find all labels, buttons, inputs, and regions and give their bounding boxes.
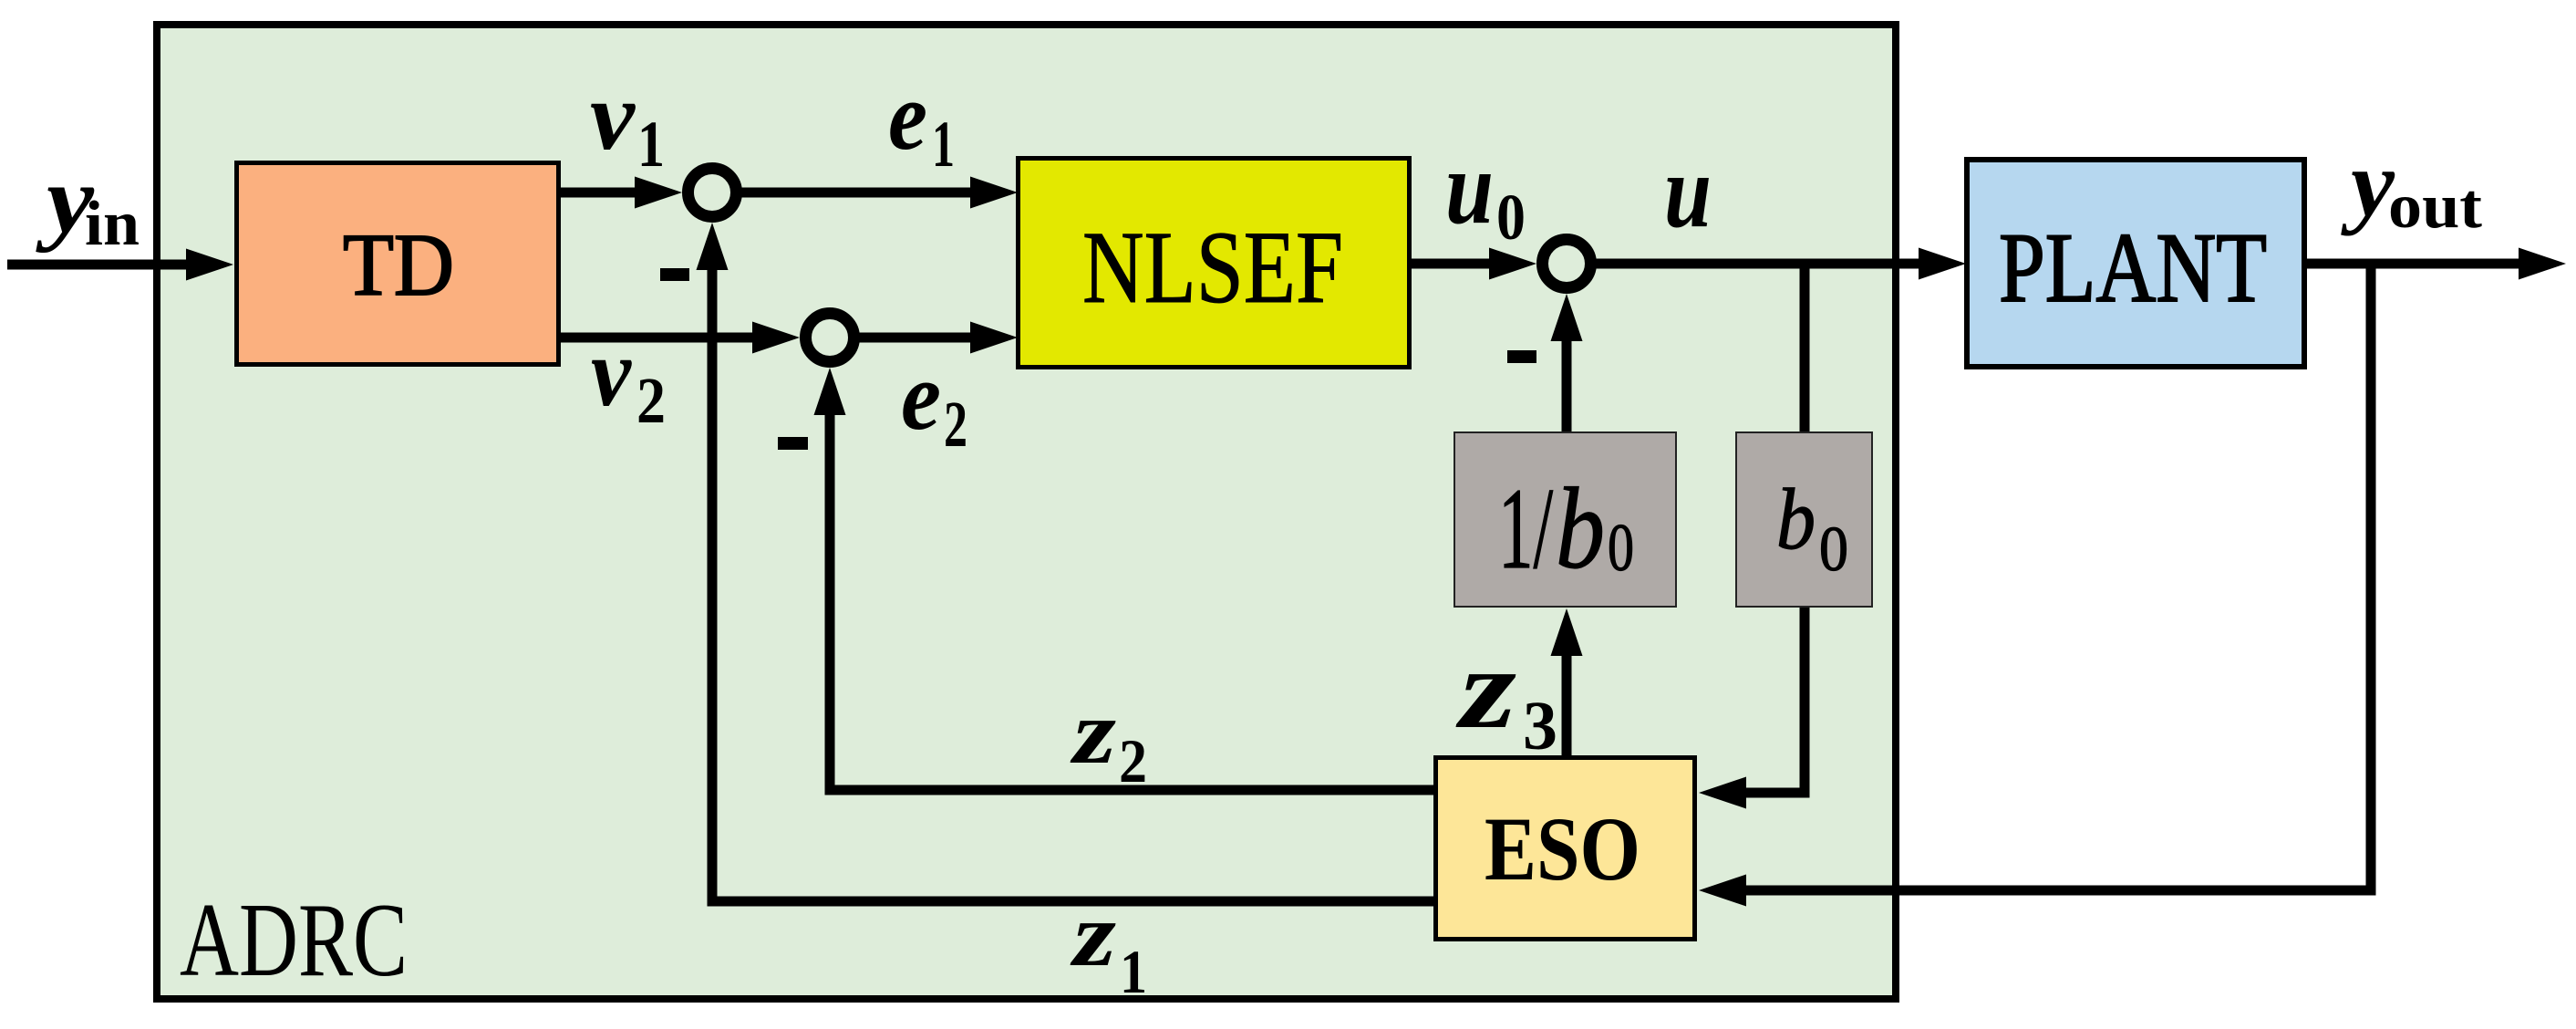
- svg-text:0: 0: [1819, 514, 1848, 585]
- svg-text:z: z: [1070, 884, 1116, 985]
- svg-text:v: v: [590, 63, 636, 171]
- svg-text:0: 0: [1496, 181, 1526, 254]
- svg-text:2: 2: [1119, 726, 1147, 795]
- svg-text:u: u: [1445, 130, 1494, 245]
- svg-text:NLSEF: NLSEF: [1082, 211, 1343, 325]
- svg-text:b: b: [1556, 465, 1605, 593]
- svg-text:1: 1: [637, 108, 665, 181]
- svg-text:0: 0: [1608, 511, 1634, 586]
- svg-text:TD: TD: [343, 216, 454, 315]
- svg-text:2: 2: [944, 388, 967, 461]
- svg-text:ADRC: ADRC: [180, 882, 408, 999]
- svg-text:3: 3: [1523, 688, 1557, 764]
- svg-text:v: v: [591, 319, 632, 427]
- svg-text:1/: 1/: [1498, 465, 1553, 593]
- svg-text:e: e: [901, 343, 941, 451]
- svg-text:in: in: [85, 189, 140, 259]
- svg-text:z: z: [1070, 681, 1116, 783]
- svg-text:PLANT: PLANT: [1999, 213, 2267, 323]
- svg-text:ESO: ESO: [1485, 798, 1640, 899]
- svg-text:z: z: [1455, 626, 1516, 753]
- svg-text:2: 2: [636, 364, 666, 437]
- svg-text:1: 1: [1120, 937, 1147, 1006]
- svg-text:b: b: [1776, 471, 1816, 567]
- svg-text:1: 1: [932, 108, 955, 181]
- svg-text:e: e: [888, 63, 927, 171]
- svg-text:out: out: [2388, 171, 2482, 242]
- svg-text:u: u: [1664, 133, 1712, 249]
